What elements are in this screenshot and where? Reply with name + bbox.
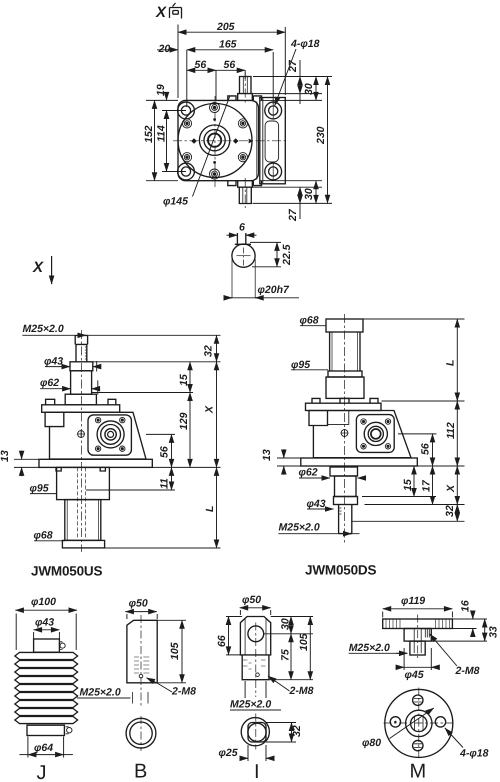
dim 56 [432, 434, 434, 466]
svg-text:15: 15 [402, 479, 414, 491]
worm flange square [356, 415, 394, 453]
bolt hole top [413, 695, 423, 705]
svg-text:M25×2.0: M25×2.0 [349, 642, 390, 654]
input shaft collar top [238, 94, 253, 101]
svg-text:φ43: φ43 [307, 498, 326, 510]
centerlines [173, 72, 288, 208]
svg-text:27: 27 [287, 59, 299, 73]
cover bolts around circle [182, 103, 247, 180]
screw rod down [339, 505, 352, 534]
svg-text:M: M [410, 761, 427, 782]
dim phi119 [383, 612, 453, 618]
dim phi62 [40, 388, 71, 390]
dim 15 [413, 466, 415, 497]
dim 27 top [253, 77, 333, 94]
svg-text:2-M8: 2-M8 [289, 685, 314, 697]
svg-text:M25×2.0: M25×2.0 [23, 323, 64, 335]
svg-text:30: 30 [303, 83, 315, 95]
base plate [39, 459, 152, 467]
svg-text:20: 20 [158, 43, 171, 55]
big gear circle phi145 [178, 104, 252, 178]
phi68 tube [65, 500, 101, 541]
X direction arrow at left [32, 256, 52, 284]
phi62 flange [65, 394, 96, 405]
housing body [45, 412, 146, 459]
svg-text:φ68: φ68 [34, 530, 53, 542]
dim 105 [309, 617, 311, 680]
svg-text:X: X [204, 405, 216, 414]
tube bolt tabs [56, 467, 105, 471]
step [328, 371, 362, 377]
bottom stub [27, 725, 64, 735]
dim 20 [157, 49, 178, 51]
svg-text:φ80: φ80 [362, 737, 381, 749]
dim L [456, 319, 458, 401]
mounting hole bottom-left [178, 163, 195, 180]
dimensions of top view [143, 21, 332, 222]
svg-text:112: 112 [445, 422, 457, 439]
dim phi50 [127, 614, 157, 619]
bellows folds [15, 652, 78, 659]
dim phi43 [45, 366, 70, 368]
svg-text:φ145: φ145 [163, 196, 188, 208]
svg-text:56: 56 [420, 443, 432, 455]
dim 30 top [284, 99, 322, 101]
thread hatch right [436, 620, 450, 629]
label phi95 [291, 369, 328, 371]
svg-text:165: 165 [219, 39, 237, 51]
dim 129 [189, 393, 191, 468]
M8 hole section [425, 629, 429, 638]
output shaft collar bottom [238, 181, 253, 188]
phi68 tube [330, 332, 360, 371]
centerline [243, 248, 245, 266]
svg-text:φ43: φ43 [35, 617, 54, 629]
svg-text:6: 6 [239, 222, 245, 234]
centerlines [255, 623, 257, 647]
top stub [34, 639, 60, 652]
dim 13 left [277, 458, 301, 466]
dim L [216, 467, 218, 548]
dim phi68 [34, 540, 65, 542]
mounting hole top-left [178, 102, 195, 119]
dim 17 [432, 466, 434, 505]
bolt hole right [435, 717, 445, 727]
svg-text:φ95: φ95 [30, 483, 49, 495]
dim 16 [452, 619, 487, 629]
svg-text:30: 30 [303, 188, 315, 200]
label 4-phi18 [275, 49, 296, 106]
svg-text:75: 75 [280, 649, 292, 661]
dim 30 [264, 617, 313, 634]
svg-text:129: 129 [178, 412, 190, 430]
label M25x2.0 shared [77, 697, 131, 699]
dim 32 [456, 505, 458, 522]
hidden screw lines [78, 467, 86, 538]
dim 66 [226, 617, 242, 655]
svg-text:φ68: φ68 [300, 315, 319, 327]
dim 56 [171, 434, 173, 467]
bottom edge tabs [228, 181, 262, 186]
input shaft top [240, 77, 252, 94]
worm wheel rings [199, 125, 229, 155]
dim 32 [266, 723, 296, 743]
plate bolt bosses [46, 399, 116, 405]
svg-text:15: 15 [178, 374, 190, 386]
bottom view [241, 718, 269, 746]
svg-text:φ62: φ62 [299, 467, 318, 479]
dim 105 [157, 620, 186, 683]
svg-text:φ64: φ64 [34, 742, 53, 754]
dim phi100 [16, 614, 76, 651]
right flange plate [260, 98, 286, 184]
svg-text:56: 56 [195, 59, 207, 71]
svg-text:152: 152 [143, 125, 155, 143]
svg-text:L: L [445, 360, 457, 366]
eye body [240, 617, 270, 655]
svg-text:32: 32 [444, 505, 456, 517]
svg-text:M25×2.0: M25×2.0 [230, 699, 271, 711]
svg-text:27: 27 [287, 208, 299, 222]
dim phi25 [248, 745, 266, 761]
phi43 collar [70, 362, 93, 371]
svg-text:M25×2.0: M25×2.0 [279, 522, 320, 534]
svg-text:φ62: φ62 [40, 377, 59, 389]
top edge tabs [228, 96, 262, 101]
svg-text:17: 17 [421, 479, 433, 492]
worm shaft rings [97, 421, 124, 448]
svg-text:φ50: φ50 [242, 594, 261, 606]
dim 27 bottom [253, 202, 333, 204]
centerline [344, 314, 346, 545]
svg-text:16: 16 [460, 600, 472, 612]
svg-text:32: 32 [203, 345, 215, 357]
cylinder body [127, 620, 157, 683]
shaft side extension lines [232, 259, 255, 298]
mounting hole top-right [265, 102, 282, 119]
center boss [404, 629, 431, 642]
view label X-xiang [155, 4, 167, 21]
svg-text:13: 13 [0, 450, 11, 462]
svg-text:M25×2.0: M25×2.0 [80, 687, 121, 699]
svg-text:33: 33 [488, 626, 500, 638]
dim 6 key width [227, 234, 238, 236]
bore ext lines [133, 692, 149, 704]
flange corner bolts [95, 417, 125, 451]
small marks on centerlines [191, 118, 253, 164]
dim phi45 [404, 648, 431, 670]
dim 11 [171, 467, 173, 490]
thread dashes [134, 657, 149, 673]
centerline [140, 615, 142, 706]
thread hatch left [386, 620, 400, 629]
svg-text:L: L [204, 506, 216, 512]
shank [242, 655, 269, 680]
dim 230 [327, 77, 329, 204]
label 2-M8 [147, 678, 173, 692]
svg-text:105: 105 [298, 633, 310, 651]
svg-text:φ43: φ43 [44, 356, 63, 368]
phi62 collar [330, 467, 358, 476]
M8 hole [139, 674, 143, 678]
svg-text:X: X [445, 484, 457, 493]
svg-text:φ25: φ25 [219, 747, 238, 759]
dim 112 [456, 401, 458, 466]
housing top plate [42, 405, 120, 413]
mounting hole bottom-right [265, 163, 282, 180]
center rings [406, 710, 432, 736]
svg-text:φ119: φ119 [401, 595, 425, 607]
base plate [301, 458, 418, 466]
svg-text:φ20h7: φ20h7 [258, 284, 290, 296]
clamp clip top [60, 643, 65, 648]
dim phi43 [34, 632, 60, 640]
svg-text:φ50: φ50 [129, 598, 148, 610]
label phi68 top [300, 325, 326, 327]
svg-text:φ100: φ100 [31, 596, 56, 608]
dim phi64 [28, 737, 64, 758]
bottom view circle [126, 718, 156, 748]
dim phi50 [240, 610, 270, 615]
svg-text:φ45: φ45 [405, 669, 424, 681]
mid piece [335, 476, 357, 497]
label M25x2.0 [349, 652, 399, 654]
screw end cap with cross [78, 431, 85, 438]
dim 33 [431, 640, 487, 642]
svg-text:JWM050DS: JWM050DS [305, 563, 377, 578]
gearbox housing square [178, 100, 259, 180]
label 4-phi18 [445, 728, 463, 748]
dim 152 left [146, 100, 178, 180]
svg-text:J: J [37, 762, 47, 782]
label M25x2.0 [278, 533, 359, 535]
svg-text:φ95: φ95 [291, 359, 310, 371]
svg-text:56: 56 [224, 59, 236, 71]
phi43 collar [334, 497, 358, 505]
flange plate side view [383, 619, 453, 629]
centerline side [417, 615, 419, 659]
bottom cap [62, 540, 104, 548]
svg-text:JWM050US: JWM050US [31, 564, 103, 579]
svg-text:2-M8: 2-M8 [455, 665, 480, 677]
right side reference lines [352, 319, 465, 521]
dim 22.5 [250, 242, 281, 266]
centerline [80, 330, 82, 552]
svg-text:105: 105 [169, 642, 181, 660]
cross hole [248, 626, 264, 642]
dim phi43 [307, 508, 334, 510]
svg-text:11: 11 [159, 478, 171, 489]
svg-text:4-φ18: 4-φ18 [290, 38, 320, 50]
phi95 tube [57, 467, 110, 499]
label 2-M8 [430, 634, 457, 666]
dim phi62 [299, 477, 330, 479]
output shaft bottom [239, 187, 251, 203]
label phi80 [390, 708, 434, 739]
phi145 leader [193, 96, 231, 197]
phi95 section [326, 377, 364, 398]
worm shaft rings [364, 422, 387, 445]
screw end cap with cross [341, 430, 348, 437]
dim 114 left [162, 111, 186, 172]
clamp clip bottom [67, 728, 72, 733]
worm flange square [88, 415, 131, 455]
lifting screw top [75, 336, 87, 345]
svg-text:66: 66 [216, 635, 228, 647]
plate bolt bosses [312, 398, 378, 403]
dim 32 [216, 335, 218, 362]
housing body [309, 411, 411, 458]
dim X [216, 362, 218, 468]
svg-text:19: 19 [155, 84, 167, 96]
svg-text:32: 32 [291, 725, 303, 737]
keyway slot [237, 233, 245, 245]
dim X [456, 466, 458, 505]
M8 side hole [256, 673, 260, 677]
dim phi20h7 [227, 297, 300, 299]
svg-text:114: 114 [156, 125, 168, 142]
bolt hole bottom [413, 740, 423, 750]
right side reference lines [86, 362, 221, 548]
bolt hole left [390, 717, 400, 727]
dim 15 [189, 362, 191, 393]
svg-text:205: 205 [216, 21, 235, 33]
label M25x2.0 [245, 681, 266, 698]
tube end cap [326, 319, 363, 332]
svg-text:X: X [155, 4, 167, 21]
dim 165 [187, 50, 273, 107]
dim 30 bottom [253, 181, 322, 188]
housing top plate [306, 403, 382, 410]
svg-text:56: 56 [159, 446, 171, 458]
svg-text:230: 230 [315, 126, 327, 145]
centerlines face [418, 688, 420, 760]
svg-text:I: I [254, 761, 260, 782]
thread dashes [243, 660, 266, 669]
dim 56 56 [216, 70, 245, 100]
svg-text:30: 30 [280, 618, 292, 630]
flange corner bolts [361, 419, 391, 449]
dim 205 [178, 25, 285, 99]
dim 19 left [166, 93, 168, 100]
dim 13 left [14, 459, 39, 467]
svg-text:X: X [32, 259, 44, 276]
dim phi95 [30, 493, 57, 495]
flange slot cutout [265, 121, 279, 162]
shaft section circle phi20 [232, 244, 255, 267]
label M25x2.0 [22, 334, 220, 336]
flange face view outer [385, 689, 453, 757]
svg-text:4-φ18: 4-φ18 [459, 748, 489, 760]
svg-text:B: B [134, 761, 147, 782]
svg-text:22.5: 22.5 [281, 244, 293, 266]
dim 75 [269, 679, 313, 681]
svg-text:2-M8: 2-M8 [171, 686, 196, 698]
label 2-M8 [268, 676, 290, 691]
tube section [71, 371, 92, 394]
svg-text:13: 13 [261, 449, 273, 461]
